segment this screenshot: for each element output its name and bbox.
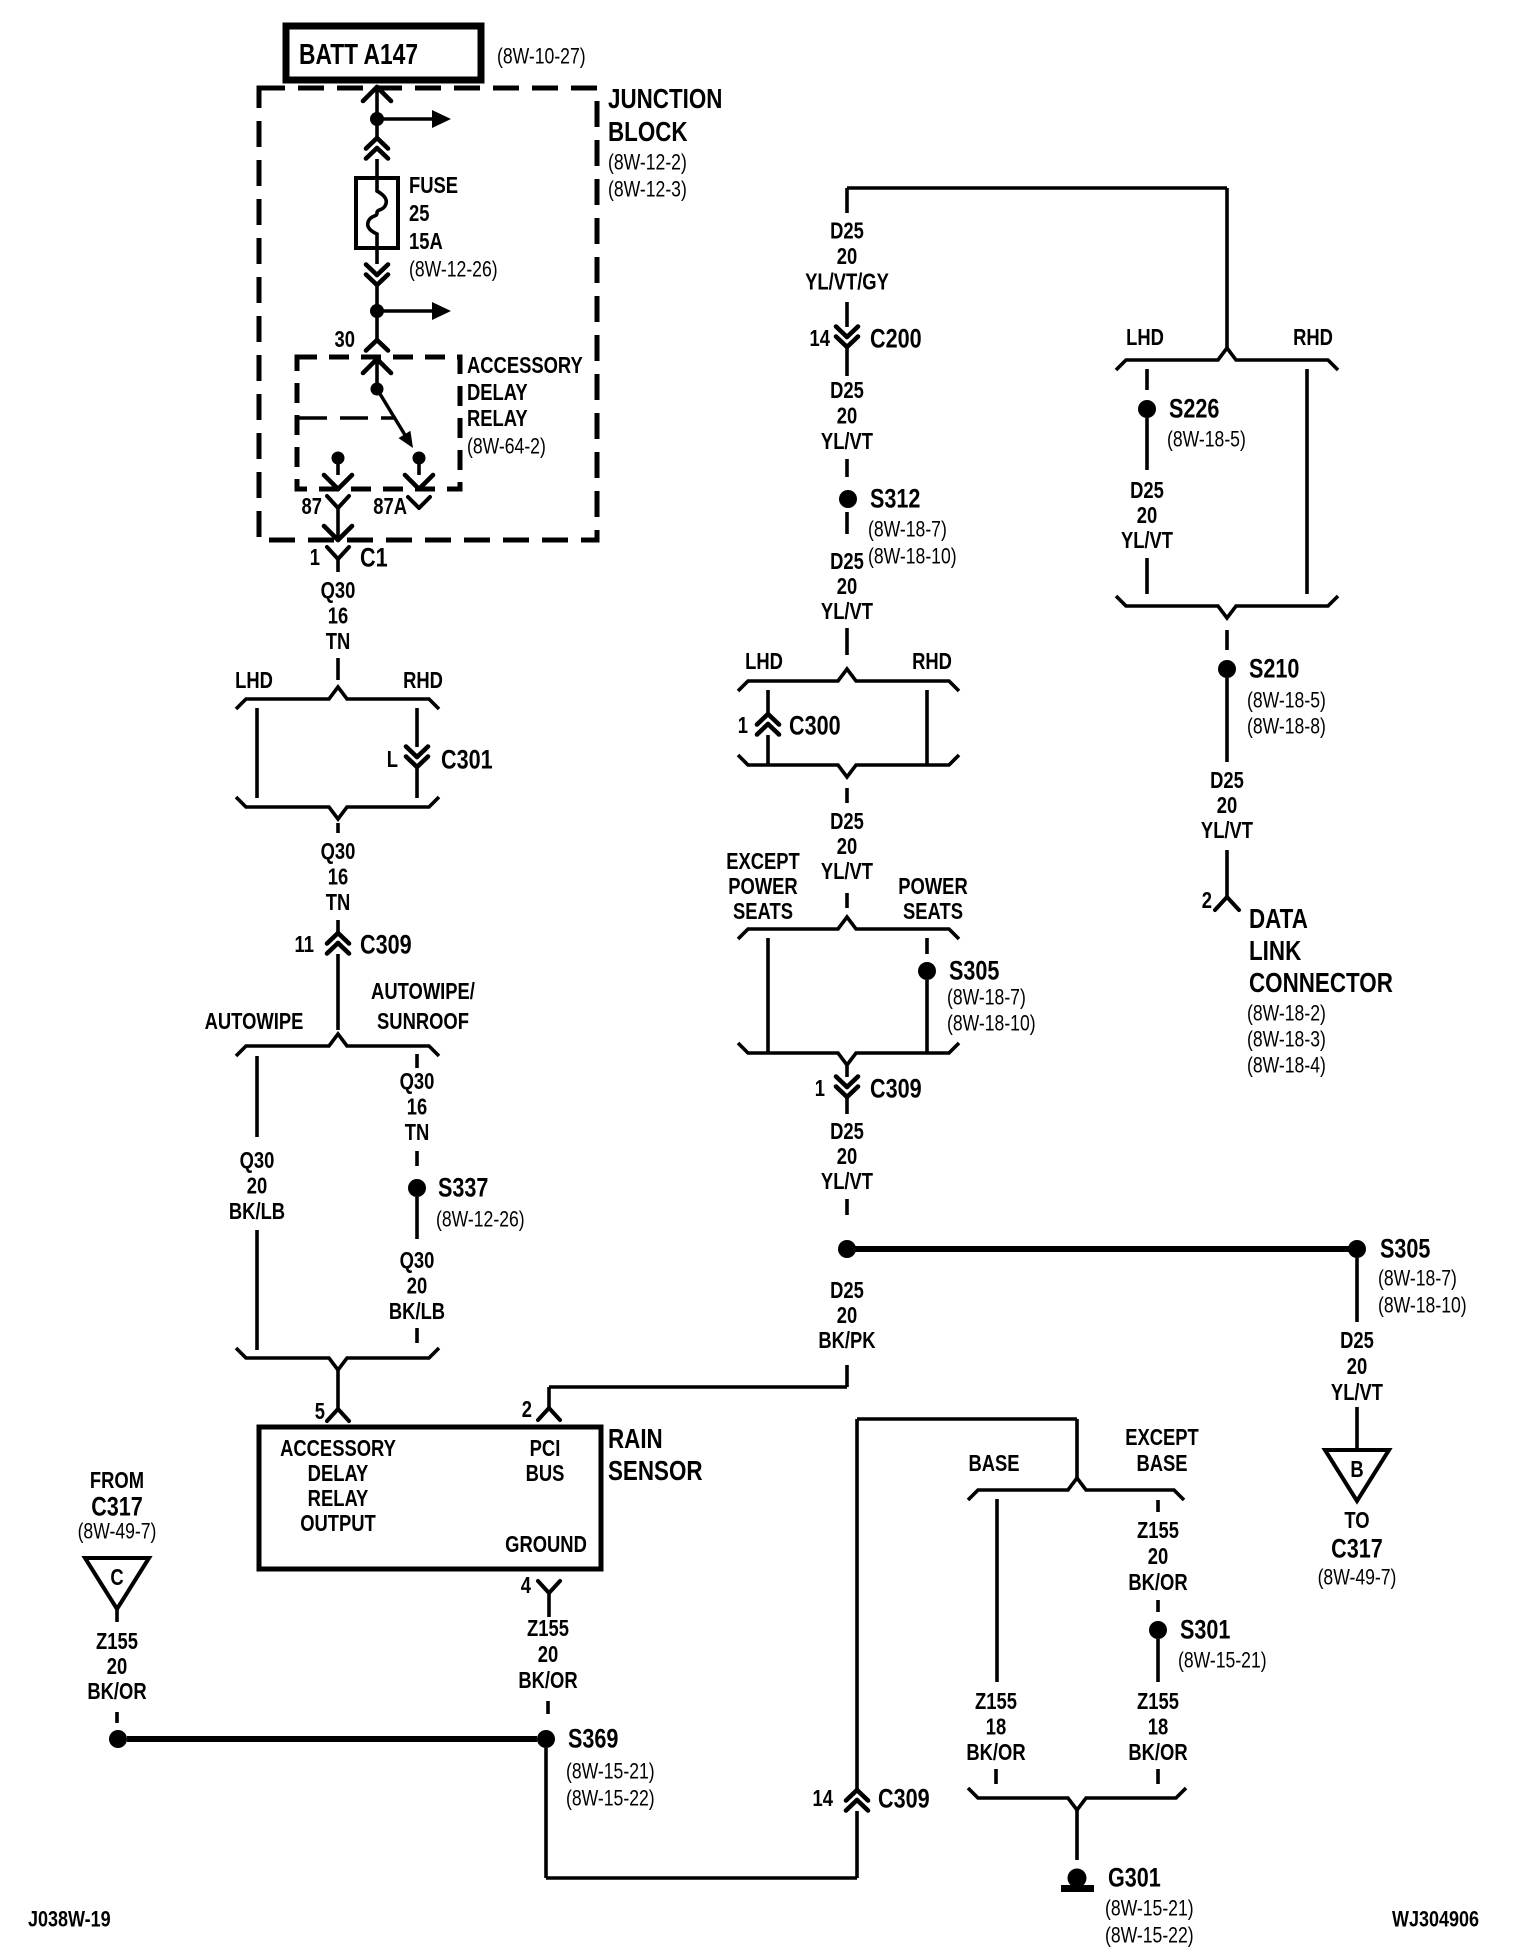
svg-text:BK/LB: BK/LB <box>389 1299 445 1324</box>
svg-text:20: 20 <box>837 1303 857 1328</box>
svg-text:SUNROOF: SUNROOF <box>377 1009 469 1034</box>
svg-text:C309: C309 <box>360 930 412 960</box>
svg-text:FROM: FROM <box>90 1468 144 1493</box>
svg-text:20: 20 <box>247 1174 267 1199</box>
svg-text:4: 4 <box>521 1573 532 1598</box>
svg-text:BLOCK: BLOCK <box>608 117 688 148</box>
svg-text:SEATS: SEATS <box>903 899 963 924</box>
svg-text:Z155: Z155 <box>975 1689 1017 1714</box>
svg-text:Z155: Z155 <box>1137 1518 1179 1543</box>
svg-text:YL/VT: YL/VT <box>1121 528 1173 553</box>
svg-text:(8W-15-21): (8W-15-21) <box>1105 1897 1194 1921</box>
svg-text:(8W-12-26): (8W-12-26) <box>436 1208 525 1232</box>
svg-text:C309: C309 <box>870 1074 922 1104</box>
svg-text:S301: S301 <box>1180 1615 1230 1645</box>
svg-text:AUTOWIPE/: AUTOWIPE/ <box>371 979 475 1004</box>
svg-text:(8W-10-27): (8W-10-27) <box>497 45 586 69</box>
svg-text:Q30: Q30 <box>240 1148 275 1173</box>
svg-text:C300: C300 <box>789 711 841 741</box>
svg-text:BUS: BUS <box>526 1461 565 1486</box>
svg-text:1: 1 <box>310 545 320 570</box>
svg-text:C317: C317 <box>91 1492 143 1522</box>
svg-text:ACCESSORY: ACCESSORY <box>467 353 583 378</box>
svg-text:1: 1 <box>815 1076 825 1101</box>
svg-text:(8W-18-10): (8W-18-10) <box>868 545 957 569</box>
svg-text:20: 20 <box>1137 503 1157 528</box>
svg-text:RAIN: RAIN <box>608 1424 663 1455</box>
svg-text:RHD: RHD <box>403 668 443 693</box>
svg-text:16: 16 <box>328 604 348 629</box>
svg-text:(8W-15-21): (8W-15-21) <box>1178 1649 1267 1673</box>
svg-text:D25: D25 <box>830 378 864 403</box>
svg-text:(8W-64-2): (8W-64-2) <box>467 435 546 459</box>
svg-text:YL/VT: YL/VT <box>821 1169 873 1194</box>
svg-text:S305: S305 <box>949 956 999 986</box>
svg-text:87A: 87A <box>373 494 407 519</box>
svg-text:18: 18 <box>1148 1715 1168 1740</box>
svg-text:Q30: Q30 <box>400 1248 435 1273</box>
svg-text:20: 20 <box>837 574 857 599</box>
svg-text:SENSOR: SENSOR <box>608 1456 703 1487</box>
svg-text:YL/VT: YL/VT <box>821 599 873 624</box>
svg-text:YL/VT: YL/VT <box>821 859 873 884</box>
svg-text:YL/VT: YL/VT <box>1331 1380 1383 1405</box>
svg-text:16: 16 <box>407 1095 427 1120</box>
svg-text:DATA: DATA <box>1249 904 1308 935</box>
svg-text:TO: TO <box>1344 1508 1369 1533</box>
svg-text:Q30: Q30 <box>321 839 356 864</box>
svg-text:C301: C301 <box>441 745 493 775</box>
svg-text:(8W-49-7): (8W-49-7) <box>1318 1566 1397 1590</box>
svg-text:BK/OR: BK/OR <box>1128 1570 1187 1595</box>
svg-text:(8W-18-3): (8W-18-3) <box>1247 1028 1326 1052</box>
svg-text:POWER: POWER <box>898 874 967 899</box>
svg-text:PCI: PCI <box>530 1436 561 1461</box>
svg-text:D25: D25 <box>1130 478 1164 503</box>
svg-text:20: 20 <box>1217 793 1237 818</box>
svg-text:D25: D25 <box>830 1119 864 1144</box>
svg-text:BK/OR: BK/OR <box>87 1679 146 1704</box>
svg-text:S369: S369 <box>568 1724 618 1754</box>
svg-text:20: 20 <box>107 1654 127 1679</box>
svg-text:BK/PK: BK/PK <box>818 1328 875 1353</box>
svg-text:AUTOWIPE: AUTOWIPE <box>205 1009 304 1034</box>
svg-text:(8W-15-22): (8W-15-22) <box>1105 1924 1194 1948</box>
svg-text:Z155: Z155 <box>527 1616 569 1641</box>
svg-text:14: 14 <box>810 326 831 351</box>
svg-text:C200: C200 <box>870 324 922 354</box>
svg-text:(8W-49-7): (8W-49-7) <box>78 1520 157 1544</box>
svg-text:CONNECTOR: CONNECTOR <box>1249 968 1393 999</box>
svg-text:(8W-18-2): (8W-18-2) <box>1247 1002 1326 1026</box>
svg-text:25: 25 <box>409 201 429 226</box>
svg-text:Q30: Q30 <box>321 578 356 603</box>
svg-text:18: 18 <box>986 1715 1006 1740</box>
svg-text:C1: C1 <box>360 543 388 573</box>
svg-text:20: 20 <box>837 244 857 269</box>
svg-text:TN: TN <box>326 890 351 915</box>
svg-text:2: 2 <box>522 1397 532 1422</box>
svg-text:OUTPUT: OUTPUT <box>300 1511 376 1536</box>
svg-text:20: 20 <box>837 834 857 859</box>
svg-text:S305: S305 <box>1380 1234 1430 1264</box>
svg-text:TN: TN <box>405 1120 430 1145</box>
svg-text:20: 20 <box>538 1642 558 1667</box>
svg-text:D25: D25 <box>830 809 864 834</box>
svg-text:C309: C309 <box>878 1784 930 1814</box>
svg-text:BATT A147: BATT A147 <box>299 40 418 71</box>
svg-text:FUSE: FUSE <box>409 173 458 198</box>
svg-text:(8W-18-7): (8W-18-7) <box>868 518 947 542</box>
svg-text:(8W-18-10): (8W-18-10) <box>1378 1294 1467 1318</box>
svg-text:(8W-12-2): (8W-12-2) <box>608 151 687 175</box>
svg-text:S312: S312 <box>870 484 920 514</box>
svg-text:YL/VT: YL/VT <box>821 429 873 454</box>
svg-text:POWER: POWER <box>728 874 797 899</box>
svg-text:C: C <box>110 1565 123 1590</box>
svg-text:(8W-18-10): (8W-18-10) <box>947 1012 1036 1036</box>
svg-text:14: 14 <box>813 1786 834 1811</box>
svg-text:RHD: RHD <box>912 649 952 674</box>
svg-text:(8W-18-4): (8W-18-4) <box>1247 1054 1326 1078</box>
svg-text:Q30: Q30 <box>400 1069 435 1094</box>
svg-text:EXCEPT: EXCEPT <box>726 849 800 874</box>
svg-text:LINK: LINK <box>1249 936 1302 967</box>
svg-text:(8W-18-7): (8W-18-7) <box>1378 1267 1457 1291</box>
svg-text:LHD: LHD <box>1126 325 1164 350</box>
svg-text:1: 1 <box>738 713 748 738</box>
svg-text:TN: TN <box>326 629 351 654</box>
svg-text:(8W-12-3): (8W-12-3) <box>608 178 687 202</box>
svg-text:C317: C317 <box>1331 1534 1383 1564</box>
svg-text:BK/LB: BK/LB <box>229 1199 285 1224</box>
svg-text:SEATS: SEATS <box>733 899 793 924</box>
svg-text:DELAY: DELAY <box>308 1461 369 1486</box>
svg-text:(8W-15-21): (8W-15-21) <box>566 1760 655 1784</box>
svg-text:J038W-19: J038W-19 <box>28 1908 111 1932</box>
svg-text:(8W-18-5): (8W-18-5) <box>1167 428 1246 452</box>
svg-text:YL/VT/GY: YL/VT/GY <box>805 270 889 295</box>
svg-text:20: 20 <box>1148 1544 1168 1569</box>
svg-text:G301: G301 <box>1108 1863 1161 1893</box>
svg-text:ACCESSORY: ACCESSORY <box>280 1436 396 1461</box>
svg-text:DELAY: DELAY <box>467 380 528 405</box>
svg-text:D25: D25 <box>830 1278 864 1303</box>
svg-text:S226: S226 <box>1169 394 1219 424</box>
svg-text:EXCEPT: EXCEPT <box>1125 1425 1199 1450</box>
svg-text:LHD: LHD <box>235 668 273 693</box>
svg-text:BK/OR: BK/OR <box>1128 1740 1187 1765</box>
svg-text:11: 11 <box>295 932 314 957</box>
svg-text:L: L <box>387 747 398 772</box>
svg-text:BASE: BASE <box>1136 1451 1187 1476</box>
svg-text:D25: D25 <box>1210 768 1244 793</box>
svg-text:BK/OR: BK/OR <box>966 1740 1025 1765</box>
svg-text:LHD: LHD <box>745 649 783 674</box>
svg-text:S210: S210 <box>1249 654 1299 684</box>
svg-text:S337: S337 <box>438 1173 488 1203</box>
svg-text:BASE: BASE <box>968 1451 1019 1476</box>
svg-text:20: 20 <box>837 1144 857 1169</box>
svg-text:(8W-18-8): (8W-18-8) <box>1247 715 1326 739</box>
svg-text:D25: D25 <box>1340 1328 1374 1353</box>
svg-text:JUNCTION: JUNCTION <box>608 84 722 115</box>
svg-text:20: 20 <box>1347 1354 1367 1379</box>
svg-text:RHD: RHD <box>1293 325 1333 350</box>
svg-text:15A: 15A <box>409 229 443 254</box>
svg-text:RELAY: RELAY <box>308 1486 369 1511</box>
svg-text:Z155: Z155 <box>96 1629 138 1654</box>
svg-text:(8W-18-7): (8W-18-7) <box>947 986 1026 1010</box>
svg-text:GROUND: GROUND <box>505 1532 587 1557</box>
svg-text:5: 5 <box>315 1399 325 1424</box>
svg-text:(8W-18-5): (8W-18-5) <box>1247 689 1326 713</box>
svg-text:Z155: Z155 <box>1137 1689 1179 1714</box>
svg-text:D25: D25 <box>830 549 864 574</box>
svg-text:B: B <box>1350 1457 1363 1482</box>
svg-text:D25: D25 <box>830 219 864 244</box>
svg-text:20: 20 <box>407 1274 427 1299</box>
svg-text:RELAY: RELAY <box>467 406 528 431</box>
svg-text:WJ304906: WJ304906 <box>1392 1908 1479 1932</box>
svg-text:87: 87 <box>302 494 322 519</box>
svg-text:20: 20 <box>837 404 857 429</box>
svg-text:16: 16 <box>328 865 348 890</box>
svg-text:(8W-15-22): (8W-15-22) <box>566 1787 655 1811</box>
svg-text:2: 2 <box>1202 888 1212 913</box>
svg-text:BK/OR: BK/OR <box>518 1668 577 1693</box>
svg-text:30: 30 <box>335 327 355 352</box>
svg-text:YL/VT: YL/VT <box>1201 818 1253 843</box>
svg-text:(8W-12-26): (8W-12-26) <box>409 258 498 282</box>
